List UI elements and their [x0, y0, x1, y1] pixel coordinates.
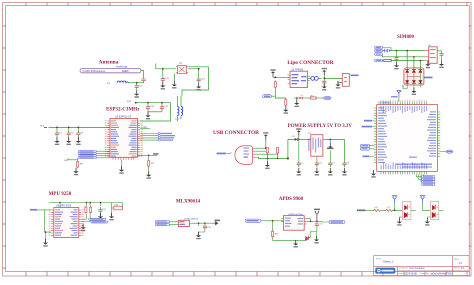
- wire U3 bottom right: [138, 155, 158, 160]
- wire battery connector second pin: [338, 83, 342, 85]
- ground crystal mid: [172, 81, 177, 89]
- svg-text:USB CONNECTOR: USB CONNECTOR: [213, 130, 259, 136]
- node net label SPK right: [440, 150, 453, 153]
- wire mic input: [366, 209, 374, 211]
- wire crystal right branch: [188, 69, 199, 77]
- wire to inductors: [177, 96, 181, 106]
- wire U7 vdd: [191, 222, 213, 224]
- ferrite bead FB1: [308, 77, 322, 81]
- svg-text:POWER SUPPLY 5V TO 3.3V: POWER SUPPLY 5V TO 3.3V: [288, 124, 353, 129]
- wire 3v3 out: [326, 139, 345, 160]
- ground crystal left: [160, 82, 165, 90]
- wire antenna feed: [141, 71, 144, 79]
- node net label MPU-SCL: [89, 218, 106, 220]
- node net label IO1 left: [78, 153, 110, 155]
- U3 pin name text: [111, 120, 137, 156]
- wire crystal left branch: [163, 69, 176, 77]
- wire R5 to label: [316, 97, 323, 99]
- ground C7: [328, 168, 333, 176]
- label BAT-2P: [351, 75, 359, 77]
- node APDS right junctions: [310, 221, 312, 223]
- node antenna junction: [136, 82, 138, 84]
- ground U5 bottom left: [373, 171, 375, 173]
- capacitor C7 output: [328, 151, 336, 168]
- crystal X1 40MHz: [176, 66, 188, 74]
- capacitor C18 mlx: [203, 223, 212, 230]
- capacitor C13: [197, 77, 201, 84]
- wire vbat down 2: [423, 203, 431, 210]
- wire mic mid: [381, 209, 386, 211]
- node net label MLX-SCL: [155, 221, 169, 223]
- op-amp U3 ESP32-C3 module body: [110, 119, 138, 158]
- node net label VDD sim: [375, 53, 383, 56]
- wire LED to R5: [303, 97, 311, 99]
- svg-text:TITLE:: TITLE:: [376, 258, 382, 260]
- node net label IO0 left: [78, 150, 110, 152]
- connector P2 battery: [341, 74, 350, 87]
- EasyEDA logo: [375, 268, 395, 274]
- node net label APDS-INT: [245, 219, 265, 222]
- node sim rail junctions: [406, 50, 408, 52]
- wire apds bottom net: [273, 228, 317, 243]
- capacitor C19 apds: [315, 222, 324, 229]
- label SMF05C: [424, 77, 433, 79]
- power flag mlx vdd: [214, 220, 221, 225]
- power flag VBAT speaker 2: [420, 195, 426, 203]
- capacitor C3: [76, 127, 80, 139]
- node net label IO2 left: [78, 155, 110, 157]
- svg-text:2024-08-08: 2024-08-08: [405, 272, 418, 275]
- wire emitter gnd 1: [399, 217, 402, 221]
- wire R10 gnd: [111, 211, 113, 217]
- wire mpu top rail: [49, 203, 123, 211]
- label TXD sim: [364, 120, 374, 122]
- svg-text:Your Company: Your Company: [409, 267, 426, 270]
- node net label PWRKEY: [375, 59, 383, 62]
- ground lipo left: [283, 106, 288, 114]
- transistor Q3 TVS array body: [425, 45, 438, 64]
- svg-text:2.4GHz PCB Antenna: 2.4GHz PCB Antenna: [83, 70, 106, 73]
- capacitor C1: [55, 127, 59, 139]
- ground C20: [394, 62, 399, 70]
- node net label SIMIO3: [422, 183, 435, 185]
- U6 pin stubs: [51, 210, 82, 235]
- U3 pin stubs: [107, 121, 140, 160]
- battery B1 symbol: [382, 49, 391, 53]
- svg-text:1.0: 1.0: [459, 261, 463, 265]
- power flag VBUS lipo: [270, 69, 275, 76]
- wire U6 right pin gnd: [82, 225, 84, 227]
- wire U5 bottom nets: [416, 174, 423, 184]
- ground LED branch: [296, 98, 298, 103]
- inductor FB2 fuse: [382, 60, 392, 62]
- node U7 junctions: [198, 222, 200, 224]
- node bottom right junction: [148, 155, 150, 157]
- ground crystal right: [196, 83, 201, 91]
- svg-text:APDS 9960: APDS 9960: [279, 197, 304, 202]
- wire U3 bottom pin ground: [121, 160, 123, 170]
- wire inductors down: [177, 116, 181, 122]
- svg-text:Sheet_1: Sheet_1: [383, 260, 394, 264]
- resistor R6 usb: [255, 148, 268, 153]
- ground speaker 2: [425, 218, 430, 226]
- U5 pin numbers top: [381, 100, 428, 101]
- transistor Q4 apds: [305, 236, 310, 242]
- node net label VBAT sim: [375, 49, 383, 52]
- node net label IO3 left: [78, 157, 110, 159]
- diode D3 elements: [405, 67, 422, 88]
- wire label stack feed: [68, 158, 77, 160]
- wire to base: [392, 209, 395, 211]
- wire R3 to ground: [148, 168, 150, 175]
- resistor R10 mpu right: [112, 204, 123, 209]
- svg-text:REV:: REV:: [454, 259, 459, 261]
- U5 bottom inner label band: [396, 163, 432, 165]
- wire APDS input: [265, 220, 284, 222]
- ground C17: [100, 214, 102, 216]
- node decoupling C3 top: [78, 127, 80, 129]
- antenna PCB trace component A1: [80, 68, 141, 73]
- resistor R7 usb: [255, 148, 278, 155]
- svg-text:Date:: Date:: [399, 272, 404, 275]
- U5 pin name text: [378, 106, 436, 169]
- op-amp U2 TP4056 charger body: [288, 71, 311, 87]
- power flag APDS vcc: [314, 209, 320, 222]
- node net flag GPIO6: [140, 137, 174, 139]
- node net label SIMIO0: [422, 176, 435, 178]
- ground mlx: [196, 232, 201, 240]
- node net label VBAT2 sim: [375, 46, 383, 49]
- node net label APDS-SDA right: [329, 220, 345, 223]
- svg-text:Company:: Company:: [399, 268, 409, 270]
- ground speaker 1: [397, 218, 402, 226]
- transistor Q1 cell body: [403, 202, 411, 220]
- ground C21: [439, 60, 444, 68]
- ground U6 right: [81, 224, 86, 232]
- capacitor C11: [160, 103, 164, 112]
- ground usb: [265, 161, 270, 169]
- svg-text:EN: EN: [65, 160, 68, 162]
- ground R3: [146, 171, 151, 179]
- label pull flag: [153, 153, 159, 155]
- diode D1 input: [292, 136, 311, 141]
- power flag VCC-3V3: [328, 143, 332, 148]
- capacitor C2: [67, 127, 71, 139]
- svg-text:FEED>: FEED>: [122, 70, 130, 73]
- resistor R3: [148, 160, 150, 168]
- svg-text:Sheet:: Sheet:: [454, 267, 460, 270]
- ground R10: [109, 213, 114, 221]
- U5 pin stubs: [374, 102, 440, 175]
- power flag VBAT lipo: [322, 68, 327, 75]
- capacitor C6 reg gnd: [315, 159, 323, 167]
- wire mlx gnd: [199, 223, 205, 235]
- resistor R11 apds: [272, 221, 280, 238]
- svg-text:U3 ESP32-C3: U3 ESP32-C3: [115, 115, 132, 119]
- label AMS1117 rotated: [308, 139, 309, 152]
- capacitor C16 vbat: [322, 79, 326, 86]
- svg-text:ESP32-C3MHz: ESP32-C3MHz: [106, 107, 140, 113]
- wire collector out 2: [439, 209, 444, 211]
- ground R2: [73, 168, 78, 176]
- ground battery pin: [335, 81, 340, 89]
- wire vbat down 1: [395, 203, 403, 210]
- capacitor C21 sim: [439, 51, 443, 58]
- op-amp U1 AMS1117-3.3 body: [308, 133, 326, 159]
- ground C5: [296, 168, 301, 176]
- inductor L2: [177, 107, 179, 116]
- resistor R8 mpu: [85, 206, 87, 214]
- node 5v junction: [298, 139, 300, 141]
- svg-text:MPU 9250: MPU 9250: [49, 192, 72, 197]
- resistor R13 lipo sense: [285, 99, 287, 107]
- wire APDS right: [307, 219, 329, 222]
- node decoupling C1 top: [56, 127, 58, 129]
- wire VBUS usb: [255, 139, 265, 148]
- wire TVS outputs down: [403, 61, 428, 91]
- node cap C10 top: [147, 102, 149, 104]
- power flag +5V usb: [263, 132, 268, 139]
- ground C16: [322, 83, 327, 91]
- op-amp U6 MPU-9250 body: [54, 208, 79, 238]
- node usb rail junctions: [267, 158, 269, 160]
- wire U6 bottom gnd: [45, 232, 47, 242]
- node net flag GPIO5: [140, 135, 175, 137]
- inductor L1: [107, 81, 137, 85]
- ground C3: [76, 137, 81, 145]
- wire usb bottom rail: [255, 153, 288, 159]
- ground caps above U3: [145, 112, 150, 120]
- capacitor C20 sim rail: [394, 55, 398, 62]
- node net label PWR: [324, 96, 332, 99]
- transistor Q2 cell body: [430, 202, 438, 220]
- wire emitter gnd 2: [427, 217, 430, 221]
- ground U6: [43, 239, 48, 247]
- resistor R12 mic: [374, 207, 381, 212]
- resistor R2 pullup: [77, 160, 79, 168]
- wire collector out 1: [411, 209, 416, 211]
- node base junction: [394, 209, 396, 211]
- svg-text:L2 L3: L2 L3: [175, 119, 181, 121]
- capacitor C5 input: [297, 139, 305, 167]
- label MIC-POS: [357, 209, 366, 211]
- wire sim power rails: [382, 51, 424, 61]
- wire crystal mid ground: [173, 74, 175, 83]
- label GND sim left: [363, 156, 374, 158]
- resistor R4 prog: [274, 81, 276, 89]
- capacitor C17 mpu: [98, 207, 102, 214]
- node net flag GPIO7: [140, 139, 173, 141]
- node cap C11 top: [161, 102, 163, 104]
- wire caps join: [148, 111, 162, 113]
- ground C6: [314, 168, 319, 176]
- node net label CHG: [263, 95, 272, 98]
- node VBUS junction: [274, 76, 276, 78]
- capacitor C14 series antenna: [142, 78, 146, 81]
- wire usb gnd: [266, 158, 268, 164]
- wire battery sense down: [275, 96, 286, 99]
- ground apds a: [293, 240, 298, 248]
- svg-text:SIM800: SIM800: [397, 35, 414, 40]
- wire 3V3 rail above U3: [136, 103, 171, 121]
- capacitor C12: [161, 76, 165, 83]
- node net label MPU-SDA: [91, 221, 108, 223]
- wire mpu right pins to labels: [82, 214, 91, 222]
- LED D2 charge: [294, 95, 303, 100]
- wire crystal loop right: [182, 67, 209, 96]
- op-amp U8 APDS-9960 body: [281, 216, 307, 231]
- svg-text:U5 SIM800L: U5 SIM800L: [378, 102, 392, 105]
- title block table: [374, 256, 470, 276]
- resistor R5: [311, 95, 317, 99]
- wire vbat2 rail: [382, 48, 391, 51]
- diode array D3 SMF05C body: [404, 68, 424, 85]
- svg-text:MLX90614: MLX90614: [176, 199, 201, 204]
- label SCL SDA mpu: [30, 209, 51, 232]
- svg-text:arDuInoRefHelT009: arDuInoRefHelT009: [431, 272, 453, 275]
- node mpu rail junctions: [59, 202, 61, 204]
- connector J1 USB micro body: [235, 146, 255, 165]
- node crystal right: [198, 68, 200, 70]
- ground C1: [54, 137, 59, 145]
- wire left 3V3 rail: [49, 126, 111, 128]
- capacitor C8 output2: [342, 161, 350, 168]
- inductor L3: [181, 107, 183, 116]
- wire VBUS to U2: [273, 76, 290, 79]
- node crystal left: [162, 68, 164, 70]
- node usb 5v feed: [287, 157, 289, 159]
- ground TVS a: [411, 87, 416, 95]
- ground U3 bottom: [119, 166, 124, 174]
- ground antenna: [134, 90, 139, 98]
- node net label MLX-SDA: [155, 224, 169, 226]
- node decoupling C2 top: [68, 127, 70, 129]
- wire 5V into diode: [288, 136, 299, 159]
- label J1 USB: [217, 153, 232, 155]
- node net label MIC pair: [361, 144, 374, 150]
- label RXD sim: [362, 126, 374, 128]
- node net label SIMIO2: [422, 181, 435, 183]
- capacitor C10: [146, 103, 150, 112]
- svg-text:Lipo CONNECTOR: Lipo CONNECTOR: [287, 60, 333, 66]
- capacitor C15 antenna shunt: [135, 83, 139, 90]
- ground apds b: [314, 236, 319, 244]
- ground TVS b: [425, 61, 430, 69]
- wire crystal left top loop: [156, 64, 163, 69]
- wire VBAT node: [324, 75, 342, 78]
- power flag VCC-5V: [296, 128, 301, 135]
- node net label SIMIO1: [422, 178, 435, 180]
- wire R4 down: [272, 89, 276, 97]
- node usb vbus: [265, 147, 267, 149]
- U3 pin numbers: [105, 120, 143, 156]
- ground C2: [66, 137, 71, 145]
- op-amp U5 SIM800 module body: [377, 105, 438, 172]
- ground C8: [342, 168, 347, 176]
- wire labels to U7: [169, 222, 178, 225]
- wire R2 top: [76, 158, 79, 160]
- power flag VBAT speaker 1: [392, 195, 398, 203]
- U6 pin numbers: [49, 209, 84, 235]
- capacitor C22 mic series: [386, 207, 393, 212]
- antenna ANT1 GSM: [391, 85, 403, 102]
- wire rail verticals to TVS box: [407, 51, 420, 68]
- node VBAT junction: [323, 78, 325, 80]
- U6 pin name text: [55, 209, 78, 235]
- op-amp U7 MLX90614 body: [178, 220, 191, 226]
- wire cap to junction: [137, 81, 144, 82]
- node net flag GPIO4: [140, 133, 172, 135]
- node rail left: [135, 102, 137, 104]
- resistor R9 mpu: [90, 206, 92, 214]
- node APDS in junction: [272, 220, 274, 222]
- svg-text:Drawn By:: Drawn By:: [420, 272, 430, 275]
